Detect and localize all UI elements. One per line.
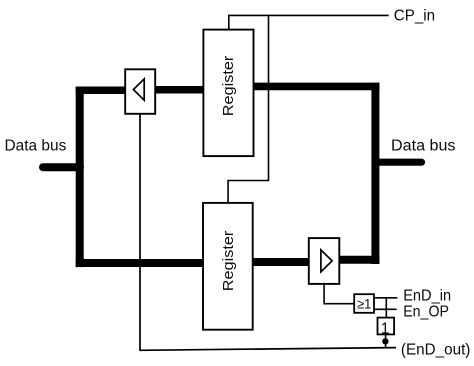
svg-text:≥1: ≥1: [357, 296, 371, 311]
buffer B (output buffer, right-pointing): [309, 238, 340, 284]
register R1: [203, 30, 253, 157]
wire branch EnD_in to inverter: [385, 298, 387, 317]
data bus left vertical segment: [76, 87, 84, 268]
node EnD_out junction dot: [382, 338, 388, 344]
wire EnD_out from buffer A bottom down and right: [140, 115, 396, 351]
buffer B triangle: [321, 250, 332, 272]
data bus top segment right of register R1: [254, 83, 380, 91]
svg-text:Register: Register: [220, 56, 237, 117]
wire buffer B enable from OR gate: [324, 285, 354, 304]
data bus left stub: [43, 163, 80, 171]
svg-text:Data bus: Data bus: [5, 137, 67, 154]
data bus right vertical segment: [371, 83, 379, 264]
svg-text:CP_in: CP_in: [394, 7, 435, 24]
data bus bottom segment between buffer and right bus: [340, 256, 380, 264]
register R2: [203, 203, 253, 330]
buffer A (input buffer, left-pointing): [125, 69, 155, 114]
svg-text:En_OP: En_OP: [403, 304, 449, 321]
svg-text:(EnD_out): (EnD_out): [401, 341, 471, 358]
inverter U2 box: [378, 318, 395, 335]
svg-text:EnD_in: EnD_in: [403, 288, 451, 305]
svg-text:Register: Register: [220, 231, 237, 292]
wire CP_in to register R1: [229, 15, 389, 29]
wire CP_in branch to register R2: [228, 15, 268, 202]
svg-text:Data bus: Data bus: [391, 137, 456, 154]
wire En_OP: [375, 308, 397, 310]
wire EnD_in: [375, 297, 398, 299]
or-gate U1 box: [354, 294, 374, 313]
data bus bottom segment left of register R2: [76, 259, 203, 267]
data bus right stub: [375, 159, 421, 166]
wire inverter to EnD_out: [385, 335, 387, 349]
data bus top segment left of buffer: [76, 87, 125, 95]
data bus bottom segment between register R2 and buffer: [253, 258, 309, 266]
data bus top segment between buffer and register R1: [156, 86, 204, 94]
buffer A triangle: [133, 79, 144, 100]
